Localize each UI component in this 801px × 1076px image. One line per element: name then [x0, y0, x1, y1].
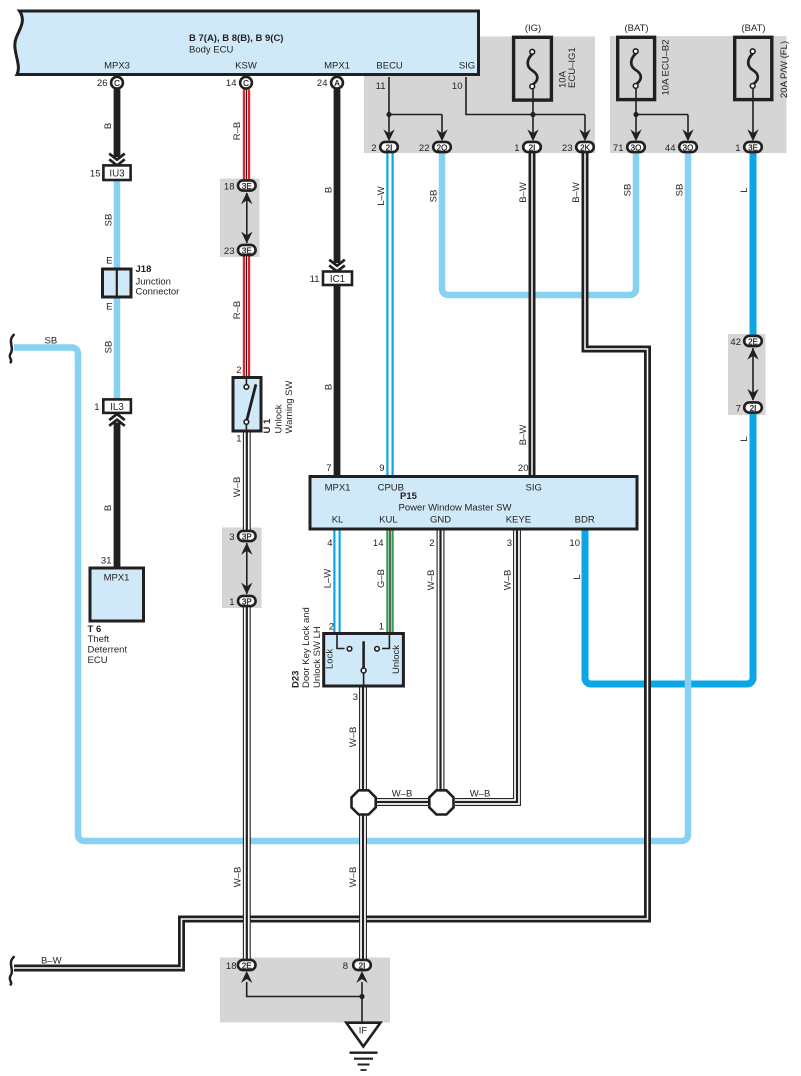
P15 power window master SW box	[310, 477, 637, 530]
svg-text:SB: SB	[45, 336, 58, 347]
wire B: body ECU MPX1 24 A down to IC1	[334, 90, 341, 264]
wire B: body ECU MPX3 26 C down to IU3	[114, 90, 121, 158]
svg-text:(BAT): (BAT)	[624, 23, 648, 34]
pin circle 26 C	[111, 77, 123, 89]
wire B: IL3 down to theft deterrent ECU T6	[114, 423, 121, 569]
svg-text:Power Window Master SW: Power Window Master SW	[399, 503, 512, 514]
svg-text:9: 9	[379, 463, 384, 474]
connector oval 7 2I	[744, 402, 762, 413]
svg-text:A: A	[334, 79, 340, 88]
connector oval 2 2I	[380, 142, 398, 153]
fuse element P/W	[748, 54, 758, 84]
connector oval 23 3E	[238, 245, 256, 256]
svg-text:44: 44	[665, 143, 676, 154]
svg-text:GND: GND	[430, 515, 451, 526]
svg-text:L: L	[739, 436, 750, 441]
svg-text:W–B: W–B	[348, 727, 359, 748]
svg-text:B: B	[103, 123, 114, 129]
arrow down into 71 3Q	[630, 129, 641, 141]
grey relay-block panel 2 (BAT group)	[610, 36, 787, 153]
arrow down into 2 2I	[383, 129, 394, 141]
arrow down into 22 2Q	[436, 129, 447, 141]
grey relay-block panel 1 (IG group)	[364, 37, 595, 154]
node: junction dot ground bus	[359, 994, 364, 999]
fuse element ECU-B2	[631, 54, 641, 84]
svg-text:26: 26	[97, 78, 108, 89]
grey ground panel bottom	[220, 958, 390, 1023]
connector oval 42 2E	[744, 336, 762, 347]
svg-text:L–W: L–W	[323, 569, 334, 589]
arrow down into 23 2K	[579, 129, 590, 141]
wire L net: fuse 20A P/W (FL) pin 1 3E down to connector 42 2E	[750, 153, 757, 335]
junction octagon J-A	[352, 790, 376, 814]
svg-text:20: 20	[518, 463, 529, 474]
svg-text:(BAT): (BAT)	[741, 23, 765, 34]
svg-text:SB: SB	[104, 214, 115, 227]
svg-text:1: 1	[229, 597, 234, 608]
svg-text:1: 1	[379, 622, 384, 633]
svg-text:8: 8	[343, 961, 348, 972]
svg-text:SB: SB	[623, 184, 634, 197]
connector oval 22 2Q	[433, 142, 451, 153]
connector oval 1 3P	[238, 596, 256, 607]
svg-text:2I: 2I	[386, 143, 393, 152]
chevron arrow up from IL3	[109, 414, 125, 426]
svg-text:3P: 3P	[242, 597, 252, 606]
svg-text:Unlock SW LH: Unlock SW LH	[312, 626, 323, 688]
svg-text:MPX1: MPX1	[324, 61, 350, 72]
svg-text:W–B: W–B	[232, 477, 243, 498]
svg-text:B: B	[323, 187, 334, 193]
wire: stem into 22 2Q	[441, 115, 443, 134]
svg-text:W–B: W–B	[348, 867, 359, 888]
connector box 1 IL3	[103, 399, 131, 413]
wire: link between 42 2E and 7 2I with arrows	[752, 348, 754, 400]
connector oval 1 2I	[523, 142, 541, 153]
unlock warning SW U1 box	[233, 378, 261, 432]
connector oval 23 2K	[576, 142, 594, 153]
svg-text:W–B: W–B	[392, 789, 413, 800]
svg-text:2I: 2I	[750, 404, 757, 413]
svg-text:7: 7	[736, 404, 741, 415]
connector oval 8 2I	[353, 960, 371, 971]
svg-text:18: 18	[226, 961, 237, 972]
ground symbol IF	[346, 1023, 380, 1070]
D23 door key lock and unlock SW box	[324, 634, 404, 687]
svg-text:Door Key Lock and: Door Key Lock and	[301, 607, 312, 688]
wire W-B: P15 KEYE pin 3 down then left into junction octagon J-B	[455, 529, 520, 806]
svg-text:C: C	[243, 79, 249, 88]
svg-text:MPX1: MPX1	[104, 573, 130, 584]
wire: ECU-B2 fuse output down to node, right to 44 3Q stem	[636, 89, 688, 115]
connector oval 44 3Q	[679, 142, 697, 153]
svg-text:1: 1	[94, 402, 99, 413]
svg-text:22: 22	[419, 143, 430, 154]
wire W-B: D23 pin 3 down to junction octagon J-A	[360, 686, 367, 790]
svg-text:42: 42	[730, 337, 741, 348]
wire W-B: between junction octagons J-A and J-B	[376, 799, 429, 806]
wire: stem into 44 3Q	[687, 115, 689, 134]
svg-text:MPX3: MPX3	[104, 61, 130, 72]
svg-text:IL3: IL3	[110, 402, 124, 413]
svg-text:W–B: W–B	[233, 867, 244, 888]
pin circle 24 A	[331, 77, 343, 89]
svg-text:U 1: U 1	[262, 418, 273, 434]
wire: stem into 2 2I	[388, 115, 390, 134]
wire: stem into 71 3Q	[635, 115, 637, 134]
svg-text:SB: SB	[104, 341, 115, 354]
wire R-B: body ECU KSW 14 C down to connector 18 3E	[244, 90, 249, 181]
svg-text:3E: 3E	[748, 143, 758, 152]
wire: stem into 23 2K	[584, 115, 586, 134]
fuse box 10A ECU-IG1	[514, 37, 552, 100]
wire G-B: P15 KUL pin 14 down to D23 pin 1	[387, 529, 392, 635]
theft deterrent ECU T6 box	[90, 568, 144, 621]
svg-text:2: 2	[329, 622, 334, 633]
svg-text:23: 23	[224, 246, 235, 257]
wire W-B: U1 pin 1 down to connector 3 3P	[243, 429, 250, 530]
svg-text:SIG: SIG	[526, 483, 542, 494]
svg-text:KEYE: KEYE	[506, 515, 531, 526]
pin circle 14 C	[240, 77, 252, 89]
arrow down into 1 2I	[527, 129, 538, 141]
svg-text:24: 24	[317, 78, 328, 89]
svg-text:B: B	[323, 384, 334, 390]
svg-text:2: 2	[371, 143, 376, 154]
connector oval 18 3E	[238, 180, 256, 191]
connector box 15 IU3	[103, 165, 130, 180]
svg-text:BDR: BDR	[575, 515, 595, 526]
svg-text:3: 3	[353, 692, 358, 703]
svg-text:SB: SB	[429, 190, 440, 203]
svg-text:J18: J18	[136, 264, 152, 275]
svg-text:10: 10	[452, 81, 463, 92]
svg-text:B–W: B–W	[518, 182, 529, 203]
U1 switch contacts	[244, 379, 256, 430]
svg-text:R–B: R–B	[232, 301, 243, 319]
wire W-B: junction octagon J-A down to ground connector 8 2I	[360, 815, 367, 959]
svg-text:L: L	[739, 187, 750, 192]
node: junction dot BECU	[386, 112, 391, 117]
svg-text:3E: 3E	[242, 182, 252, 191]
svg-text:11: 11	[310, 274, 320, 285]
svg-text:1: 1	[514, 143, 519, 154]
svg-text:2Q: 2Q	[437, 143, 448, 152]
wire: link between 3 3P and 1 3P with arrows	[246, 543, 248, 594]
svg-text:3E: 3E	[242, 246, 252, 255]
svg-text:BECU: BECU	[376, 61, 403, 72]
wire W-B: connector 1 3P down to ground connector 18 2E	[243, 607, 250, 959]
svg-text:10A ECU–B2: 10A ECU–B2	[661, 40, 672, 96]
arrow down into 1 3E	[747, 129, 758, 141]
wire: P/W fuse output down to 1 3E	[752, 89, 754, 134]
connector oval 3 3P	[238, 531, 256, 542]
svg-text:2I: 2I	[359, 961, 366, 970]
svg-text:2: 2	[429, 538, 434, 549]
svg-text:4: 4	[327, 538, 332, 549]
svg-text:Warning SW: Warning SW	[284, 381, 295, 434]
svg-text:IU3: IU3	[109, 169, 125, 180]
wire L-W: P15 KL pin 4 down to D23 pin 2	[334, 529, 339, 635]
connector oval 71 3Q	[627, 142, 645, 153]
svg-text:B 7(A), B 8(B), B 9(C): B 7(A), B 8(B), B 9(C)	[189, 33, 283, 44]
svg-text:10: 10	[569, 538, 580, 549]
junction octagon J-B	[429, 790, 453, 814]
svg-text:KUL: KUL	[379, 515, 397, 526]
svg-text:14: 14	[373, 538, 384, 549]
arrow up into 8 2I	[356, 971, 367, 983]
svg-text:7: 7	[326, 463, 331, 474]
svg-text:3Q: 3Q	[683, 143, 694, 152]
node: junction dot IG fuse	[530, 112, 535, 117]
node: junction dot ECU-B2 fuse	[633, 112, 638, 117]
svg-text:2E: 2E	[748, 337, 758, 346]
wire R-B: connector 23 3E down to unlock warning SW U1 pin 2	[244, 256, 249, 378]
svg-text:3Q: 3Q	[631, 143, 642, 152]
fuse element IG	[528, 54, 538, 84]
chevron arrow into IU3	[109, 154, 125, 166]
svg-text:MPX1: MPX1	[325, 483, 351, 494]
svg-text:Connector: Connector	[136, 287, 180, 298]
svg-text:3: 3	[229, 532, 234, 543]
svg-text:14: 14	[226, 78, 237, 89]
wire SB net: junction connector column IU3 to J18 to IL3	[114, 180, 121, 400]
chevron arrow into IC1	[329, 260, 345, 272]
svg-text:IC1: IC1	[330, 274, 345, 285]
svg-text:B–W: B–W	[518, 425, 529, 446]
svg-text:KL: KL	[332, 515, 344, 526]
wire: link between 18 3E and 23 3E with arrows	[246, 193, 248, 243]
svg-text:KSW: KSW	[235, 61, 257, 72]
svg-text:2I: 2I	[529, 143, 536, 152]
svg-text:SIG: SIG	[459, 61, 475, 72]
wire B-W net: connector 23 2K down, right, down right side, left along y=919, to squiggle bottom left	[14, 153, 648, 968]
svg-text:D23: D23	[291, 671, 302, 688]
svg-text:Body ECU: Body ECU	[189, 45, 233, 56]
arrow up into 18 2E	[241, 971, 252, 983]
wire L-W: connector 2 2I down to P15 CPUB pin 9	[387, 153, 392, 477]
D23 switch contacts	[337, 635, 389, 685]
svg-text:11: 11	[376, 81, 386, 92]
wire SB net: pin 22 2Q down, right along y=295, up to fuse pin 71 3Q	[442, 153, 636, 295]
arrow down into 44 3Q	[682, 129, 693, 141]
grey connector panel 3E pair	[220, 179, 260, 258]
svg-text:B–W: B–W	[571, 182, 582, 203]
wire B-W: connector 1 2I down to P15 SIG pin 20	[529, 153, 536, 477]
body ECU box B7/B8/B9	[15, 11, 479, 75]
wire SB net: squiggle left, down left side, along bottom y=841, up to fuse pin 44 3Q	[14, 153, 688, 841]
squiggle continuation B-W bottom left	[10, 957, 14, 985]
svg-text:B: B	[103, 505, 114, 511]
svg-text:2E: 2E	[242, 961, 252, 970]
connector oval 18 2E	[238, 960, 256, 971]
svg-text:B–W: B–W	[41, 956, 62, 967]
wire W-B: P15 GND pin 2 down to junction octagon J-B	[437, 529, 444, 791]
svg-text:1: 1	[236, 434, 241, 445]
wire: stem into 1 2I	[532, 115, 534, 134]
grey connector panel 3P pair	[222, 528, 262, 609]
svg-text:W–B: W–B	[503, 570, 514, 591]
svg-text:C: C	[114, 79, 120, 88]
svg-text:ECU: ECU	[88, 655, 108, 666]
svg-text:2: 2	[236, 365, 241, 376]
grey connector panel 2E/2I pair right	[728, 334, 766, 415]
svg-text:31: 31	[101, 556, 112, 567]
svg-text:SB: SB	[675, 184, 686, 197]
wire L net: connector 7 2I down, left along y=684, up to P15 BDR	[585, 414, 753, 685]
fuse box 20A P/W (FL)	[735, 37, 772, 99]
svg-text:W–B: W–B	[470, 789, 491, 800]
svg-text:3: 3	[507, 538, 512, 549]
wire B: IC1 down to P15 MPX1 pin 7	[334, 285, 341, 477]
svg-text:(IG): (IG)	[525, 23, 541, 34]
svg-text:3P: 3P	[242, 532, 252, 541]
svg-text:ECU–IG1: ECU–IG1	[567, 47, 578, 88]
svg-text:Unlock: Unlock	[391, 645, 402, 674]
wire: BECU pin 11 down from body ECU to junction dot	[389, 77, 442, 115]
wire: SIG pin 10 down from body ECU, right to IG fuse node	[466, 77, 533, 115]
svg-text:71: 71	[613, 143, 624, 154]
svg-text:L: L	[572, 574, 583, 579]
connector oval 1 3E	[744, 142, 762, 153]
svg-text:18: 18	[224, 182, 235, 193]
svg-text:P15: P15	[400, 491, 418, 502]
svg-text:1: 1	[735, 143, 740, 154]
svg-text:Unlock: Unlock	[274, 404, 285, 433]
svg-text:E: E	[106, 302, 112, 313]
svg-text:20A P/W (FL): 20A P/W (FL)	[779, 41, 790, 98]
svg-text:R–B: R–B	[232, 122, 243, 140]
svg-text:W–B: W–B	[426, 570, 437, 591]
svg-text:G–B: G–B	[376, 569, 387, 588]
svg-text:2K: 2K	[580, 143, 590, 152]
junction connector J18	[103, 269, 132, 297]
svg-text:23: 23	[562, 143, 573, 154]
svg-text:L–W: L–W	[376, 186, 387, 206]
wire: IG fuse output down to node, right to 2K stem	[533, 89, 585, 115]
svg-text:E: E	[106, 256, 112, 267]
connector box 11 IC1	[323, 272, 352, 286]
wire: ground bus from 18 2E and 8 2I to IF ground	[247, 982, 362, 997]
fuse box 10A ECU-B2	[618, 37, 655, 99]
svg-text:Lock: Lock	[325, 649, 336, 669]
svg-text:IF: IF	[359, 1026, 368, 1037]
squiggle continuation SB left	[10, 335, 14, 363]
svg-text:15: 15	[90, 169, 101, 180]
